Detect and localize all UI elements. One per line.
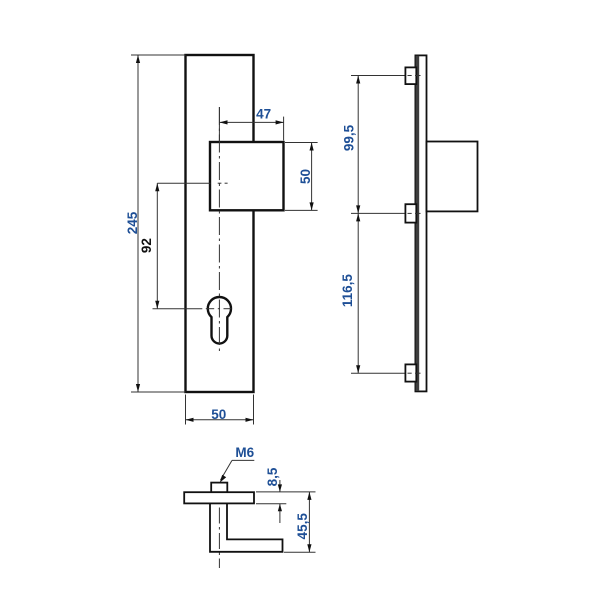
svg-text:50: 50 [298,169,313,184]
svg-text:8,5: 8,5 [265,467,280,486]
svg-text:45,5: 45,5 [295,513,310,540]
svg-text:92: 92 [139,238,154,253]
svg-text:116,5: 116,5 [340,274,355,308]
svg-text:245: 245 [125,211,140,234]
svg-text:47: 47 [256,107,271,122]
svg-text:50: 50 [211,407,226,422]
svg-text:99,5: 99,5 [342,124,357,151]
svg-text:M6: M6 [235,445,254,460]
